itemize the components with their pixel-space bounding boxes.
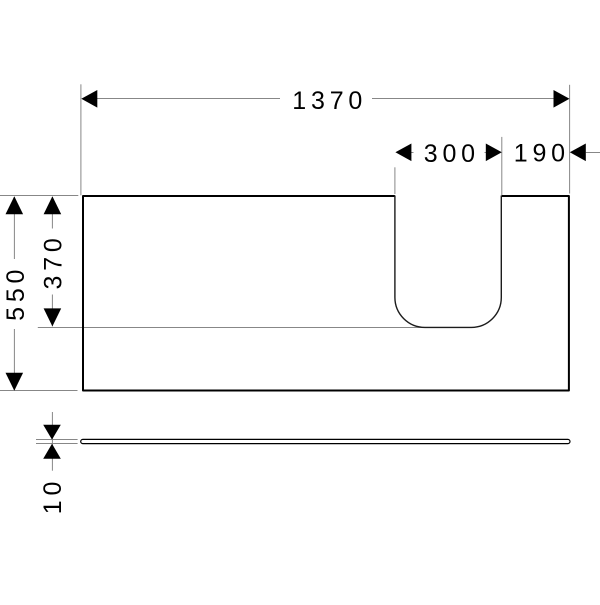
svg-text:1370: 1370 — [292, 87, 367, 115]
svg-text:370: 370 — [40, 233, 68, 289]
svg-text:190: 190 — [514, 140, 570, 168]
svg-text:550: 550 — [2, 265, 30, 321]
svg-text:300: 300 — [424, 140, 480, 168]
svg-text:10: 10 — [39, 477, 67, 514]
